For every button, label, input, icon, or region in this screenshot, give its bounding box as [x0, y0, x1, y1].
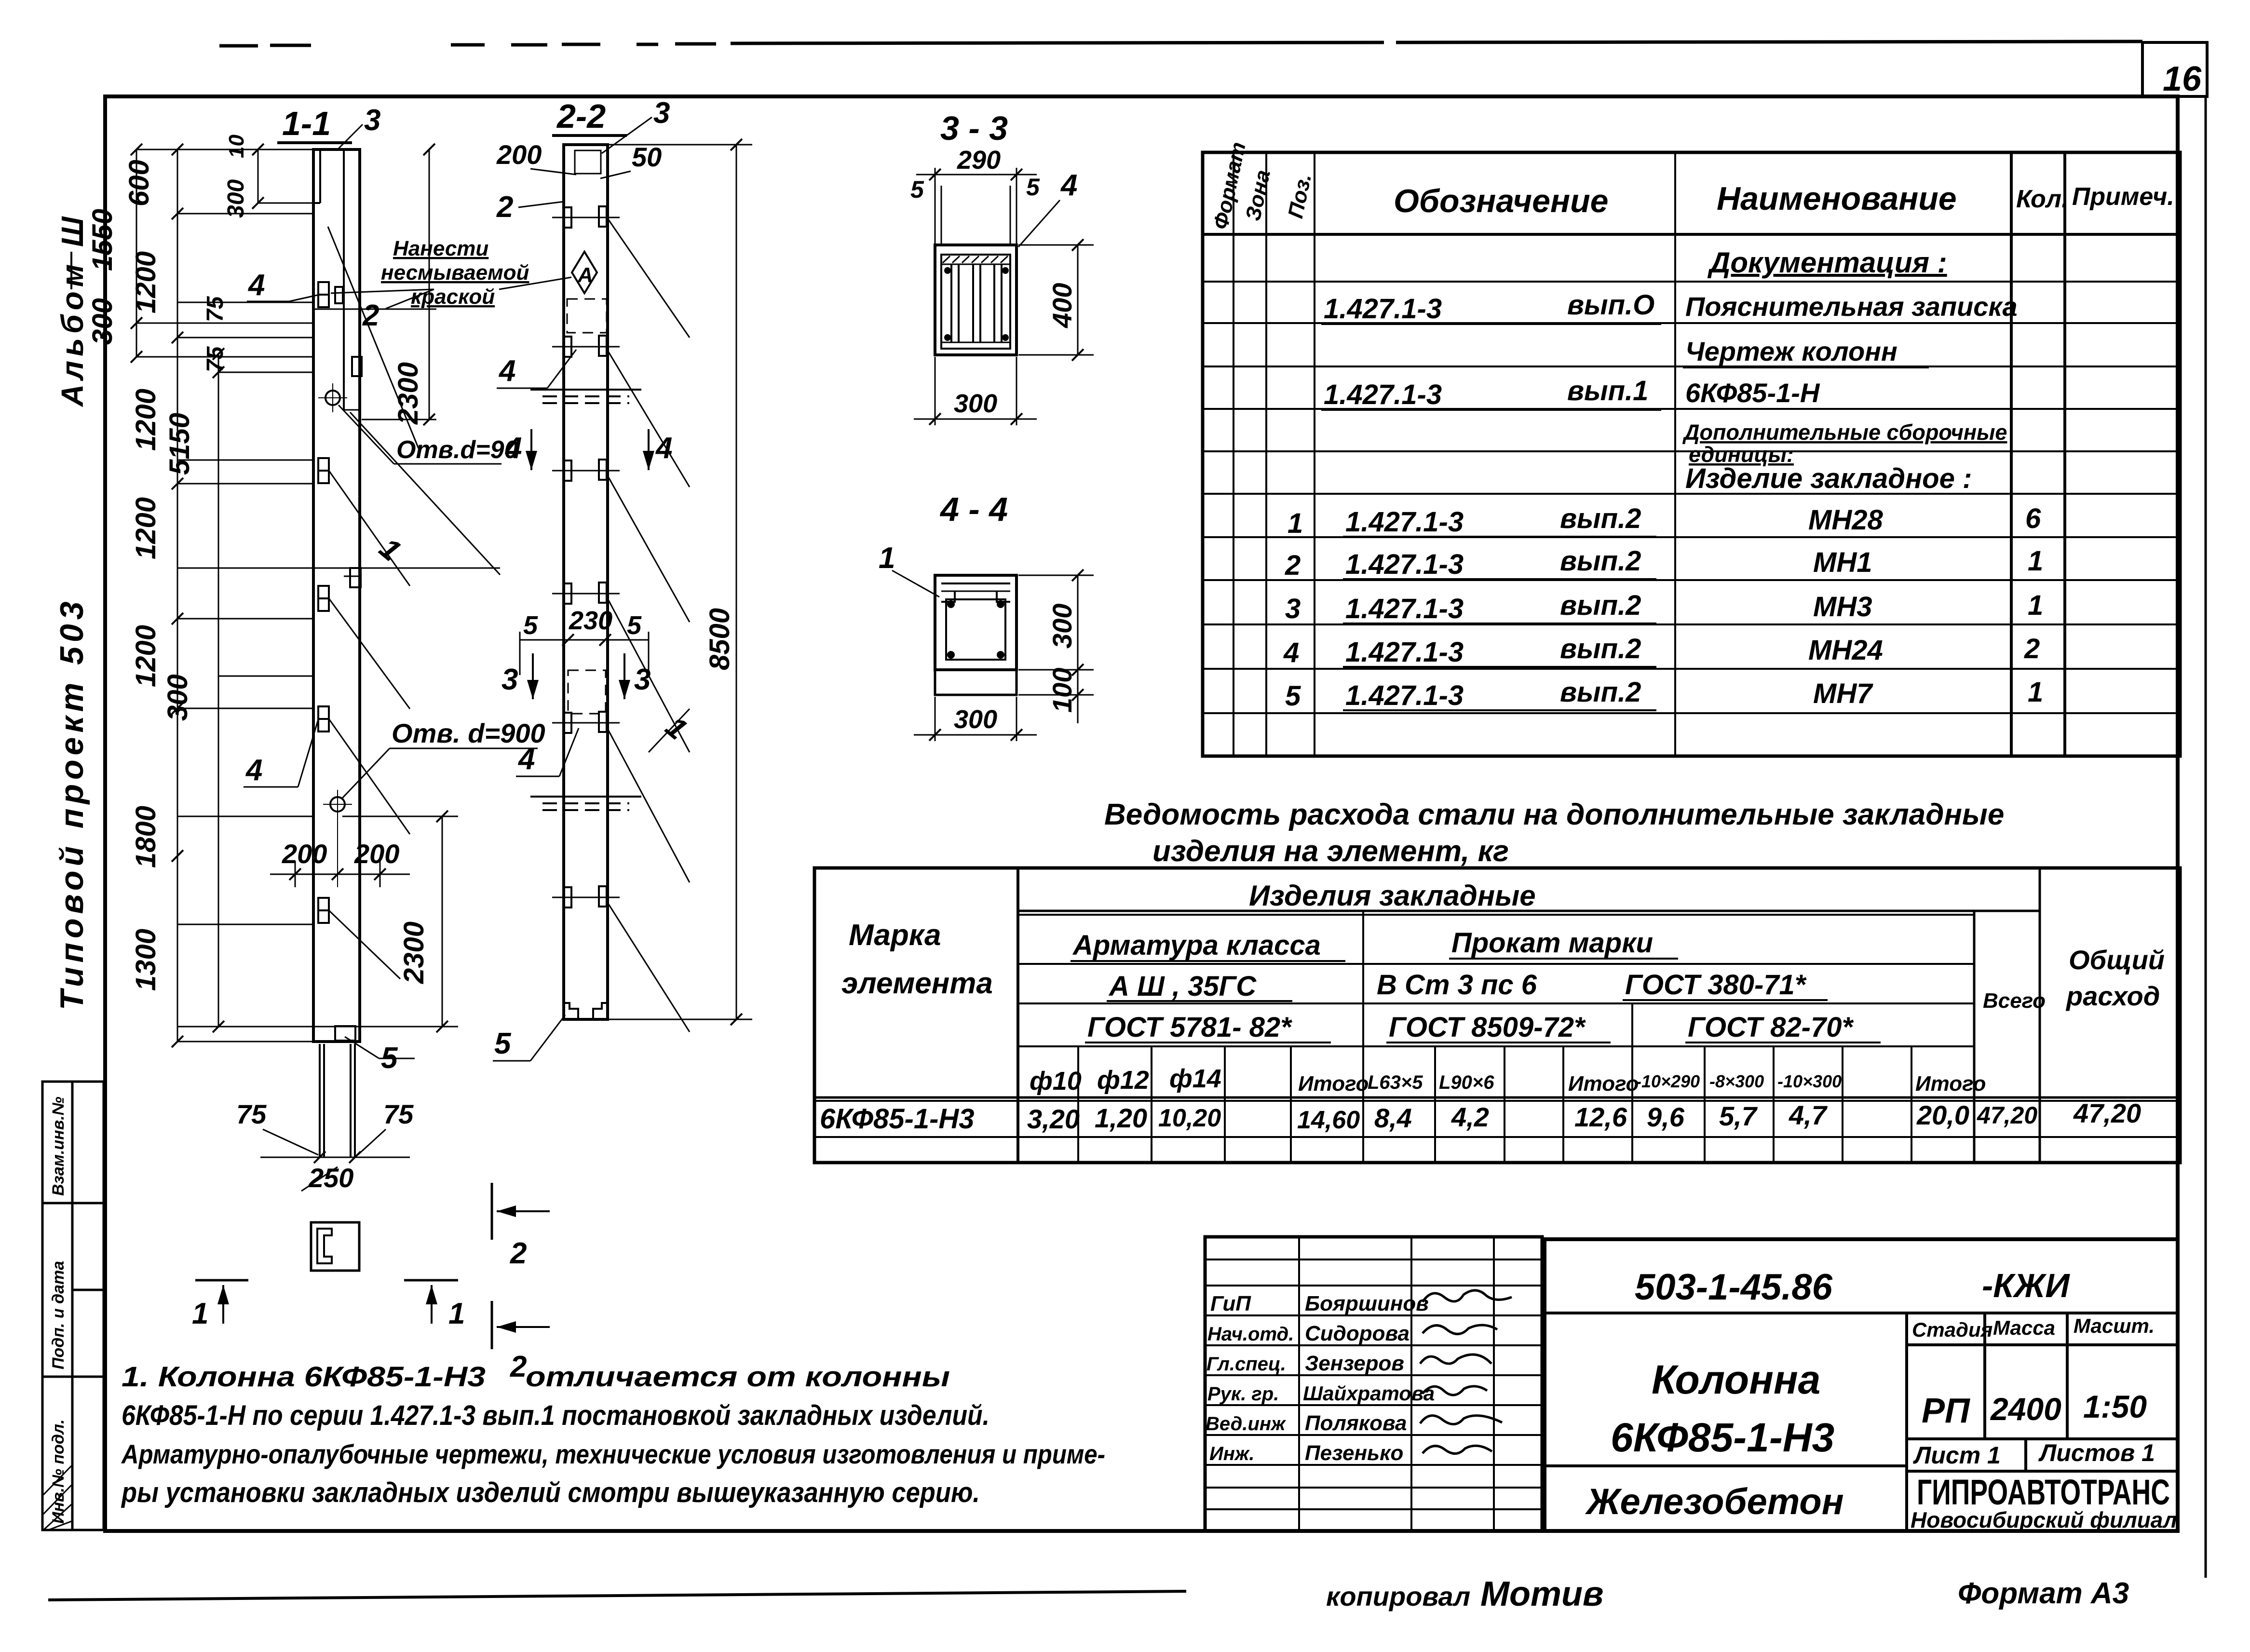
svg-text:1.427.1-3: 1.427.1-3 [1345, 506, 1464, 538]
svg-text:Инж.: Инж. [1209, 1443, 1255, 1464]
svg-text:6КФ85-1-Н3: 6КФ85-1-Н3 [1611, 1415, 1834, 1460]
svg-text:Рук. гр.: Рук. гр. [1207, 1383, 1279, 1405]
svg-text:1550: 1550 [87, 209, 118, 271]
node section mark 2 upper [491, 1183, 493, 1240]
svg-text:75: 75 [236, 1099, 267, 1129]
node plate leader diagonals v11 [329, 471, 410, 979]
svg-text:элемента: элемента [841, 967, 993, 1000]
svg-text:1.427.1-3: 1.427.1-3 [1345, 549, 1464, 580]
wire top page-edge dashes [219, 41, 2142, 46]
svg-text:ГИПРОАВТОТРАНС: ГИПРОАВТОТРАНС [1917, 1472, 2170, 1512]
svg-text:3: 3 [634, 663, 651, 696]
node hole d900 [330, 797, 345, 812]
svg-text:МН1: МН1 [1813, 547, 1872, 578]
svg-text:Арматура класса: Арматура класса [1072, 930, 1321, 961]
node steel table grid [814, 868, 2180, 1163]
svg-text:Нанести: Нанести [393, 237, 488, 260]
svg-text:3: 3 [653, 96, 670, 130]
svg-text:2: 2 [510, 1237, 527, 1270]
svg-text:Стадия: Стадия [1912, 1318, 1992, 1341]
svg-text:Альбом Ш: Альбом Ш [55, 212, 90, 407]
node hole d90 [325, 391, 340, 405]
svg-text:75: 75 [203, 296, 228, 322]
svg-text:МН3: МН3 [1813, 591, 1872, 623]
svg-text:4,7: 4,7 [1789, 1100, 1828, 1130]
svg-text:Взам.инв.№: Взам.инв.№ [49, 1097, 68, 1196]
svg-text:1.427.1-3: 1.427.1-3 [1324, 379, 1442, 410]
svg-text:МН7: МН7 [1813, 678, 1873, 709]
node dim 300 sec33 bottom [935, 357, 936, 425]
svg-text:Гл.спец.: Гл.спец. [1206, 1354, 1286, 1375]
svg-text:ГОСТ 380-71*: ГОСТ 380-71* [1625, 969, 1807, 1001]
svg-text:8,4: 8,4 [1374, 1103, 1412, 1133]
svg-text:Чертеж колонн: Чертеж колонн [1685, 336, 1898, 366]
svg-text:изделия на элемент, кг: изделия на элемент, кг [1152, 835, 1509, 868]
svg-text:вып.1: вып.1 [1567, 375, 1648, 406]
svg-text:расход: расход [2065, 981, 2160, 1011]
svg-text:5: 5 [910, 176, 924, 203]
node section mark 2 lower [491, 1301, 493, 1349]
svg-text:1200: 1200 [130, 497, 162, 559]
svg-text:отличается от колонны: отличается от колонны [526, 1361, 950, 1393]
node leader diagonals v22 [607, 217, 690, 1032]
svg-text:А: А [577, 263, 593, 287]
svg-text:Подп. и дата: Подп. и дата [49, 1261, 68, 1369]
node dim labels left chain [87, 135, 249, 991]
svg-text:Общий: Общий [2069, 945, 2165, 975]
svg-text:Итого: Итого [1568, 1072, 1639, 1096]
svg-text:4: 4 [245, 754, 262, 787]
svg-text:4,2: 4,2 [1451, 1102, 1489, 1132]
svg-text:8500: 8500 [704, 608, 735, 670]
node embedded plates view 1-1 [318, 282, 362, 923]
svg-text:1200: 1200 [130, 625, 162, 687]
svg-text:3: 3 [502, 663, 518, 696]
svg-text:1.427.1-3: 1.427.1-3 [1345, 636, 1464, 668]
node column 1-1 body [313, 149, 360, 1042]
svg-text:вып.2: вып.2 [1560, 633, 1641, 664]
svg-text:47,20: 47,20 [1977, 1102, 2037, 1129]
svg-text:Масса: Масса [1993, 1316, 2055, 1339]
node dim 2300 upper [429, 149, 430, 420]
svg-text:Сидорова: Сидорова [1305, 1322, 1410, 1345]
svg-text:Обозначение: Обозначение [1394, 183, 1608, 219]
svg-text:-10×290: -10×290 [1636, 1071, 1700, 1091]
svg-text:Нач.отд.: Нач.отд. [1207, 1324, 1294, 1345]
svg-text:Листов 1: Листов 1 [2038, 1439, 2155, 1466]
node section 4-4 body [935, 575, 1017, 695]
node dim chain C1 [136, 149, 500, 1042]
svg-text:1: 1 [2028, 545, 2043, 577]
svg-text:Полякова: Полякова [1305, 1411, 1407, 1435]
svg-text:290: 290 [957, 146, 1001, 175]
node section 3-3 hatch [943, 256, 1008, 263]
svg-text:Прокат марки: Прокат марки [1451, 927, 1653, 959]
node dim ticks view11 [131, 144, 264, 1047]
svg-text:300: 300 [223, 179, 249, 218]
node section 3-3 corner bars [944, 267, 1009, 341]
node section mark 1 right [404, 1279, 458, 1282]
svg-text:Кол.: Кол. [2016, 185, 2069, 213]
svg-text:Масшт.: Масшт. [2074, 1314, 2155, 1337]
svg-text:300: 300 [87, 298, 118, 345]
node plan view [311, 1222, 359, 1271]
node hidden loop lines upper [530, 390, 641, 403]
svg-text:9,6: 9,6 [1647, 1102, 1685, 1132]
svg-text:1200: 1200 [130, 251, 162, 313]
svg-text:4: 4 [655, 432, 672, 465]
svg-text:200: 200 [282, 839, 327, 869]
node specification table grid [1203, 152, 2180, 756]
svg-text:Лист 1: Лист 1 [1913, 1442, 2001, 1469]
svg-text:Арматурно-опалубочные чертежи,: Арматурно-опалубочные чертежи, техническ… [121, 1439, 1105, 1469]
svg-text:2: 2 [1285, 550, 1301, 581]
svg-text:5,7: 5,7 [1719, 1101, 1758, 1131]
svg-text:1: 1 [2028, 590, 2043, 621]
node dim 200 200 [270, 874, 410, 875]
svg-text:2: 2 [2024, 633, 2040, 664]
svg-text:75: 75 [383, 1099, 414, 1129]
svg-text:МН28: МН28 [1808, 504, 1883, 536]
svg-text:РП: РП [1922, 1392, 1971, 1430]
svg-text:Всего: Всего [1983, 989, 2046, 1013]
svg-text:L90×6: L90×6 [1439, 1072, 1494, 1093]
svg-text:ГиП: ГиП [1210, 1292, 1251, 1315]
svg-text:3: 3 [364, 104, 380, 137]
svg-text:5150: 5150 [164, 413, 195, 475]
svg-text:вып.2: вып.2 [1560, 590, 1641, 621]
svg-text:вып.2: вып.2 [1560, 503, 1641, 534]
svg-text:Изделие закладное :: Изделие закладное : [1685, 463, 1972, 494]
node section mark 1 left [195, 1279, 248, 1282]
node signature table grid [1205, 1237, 1542, 1531]
svg-text:-КЖИ: -КЖИ [1982, 1267, 2070, 1304]
svg-text:10,20: 10,20 [1158, 1104, 1221, 1132]
svg-text:вып.2: вып.2 [1560, 545, 1641, 577]
svg-text:Наименование: Наименование [1717, 180, 1957, 217]
svg-text:3,20: 3,20 [1027, 1104, 1080, 1134]
svg-text:3: 3 [1285, 593, 1301, 624]
svg-text:Мотив: Мотив [1480, 1575, 1603, 1613]
svg-text:230: 230 [569, 606, 612, 635]
svg-text:1300: 1300 [130, 929, 162, 991]
node page number box 16 [2142, 42, 2207, 96]
node stamp boxes [42, 1082, 104, 1530]
svg-text:1.427.1-3: 1.427.1-3 [1324, 293, 1442, 325]
svg-text:16: 16 [2163, 60, 2202, 98]
svg-text:47,20: 47,20 [2073, 1098, 2141, 1128]
svg-text:1: 1 [1288, 508, 1303, 539]
node label 1 diag [350, 412, 500, 575]
svg-text:А Ш , 35ГС: А Ш , 35ГС [1108, 971, 1257, 1002]
svg-text:503-1-45.86: 503-1-45.86 [1635, 1267, 1833, 1308]
svg-text:4: 4 [504, 432, 522, 465]
svg-text:Итого: Итого [1298, 1072, 1369, 1096]
svg-text:Вед.инж: Вед.инж [1206, 1413, 1287, 1435]
svg-text:Изделия закладные: Изделия закладные [1249, 880, 1536, 912]
node leader to kraska [328, 227, 419, 448]
svg-text:Отв.d=90: Отв.d=90 [396, 436, 518, 464]
svg-text:Новосибирский филиал: Новосибирский филиал [1911, 1507, 2177, 1532]
svg-text:Примеч.: Примеч. [2072, 183, 2174, 211]
svg-text:Колонна: Колонна [1652, 1357, 1820, 1402]
svg-text:2300: 2300 [398, 921, 430, 984]
svg-text:В Ст 3 пс 6: В Ст 3 пс 6 [1377, 969, 1537, 1001]
svg-text:МН24: МН24 [1808, 635, 1883, 666]
node diamond A marker [572, 252, 597, 293]
node hatch bottom stamp [43, 1466, 71, 1530]
svg-text:Инв.№ подл.: Инв.№ подл. [49, 1419, 68, 1524]
svg-text:ГОСТ 5781- 82*: ГОСТ 5781- 82* [1087, 1012, 1292, 1043]
svg-text:300: 300 [162, 674, 193, 721]
node plate center dashes v22 [552, 217, 620, 897]
svg-text:6КФ85-1-Н: 6КФ85-1-Н [1685, 378, 1820, 408]
svg-text:14,60: 14,60 [1297, 1106, 1360, 1134]
svg-text:Бояршинов: Бояршинов [1305, 1292, 1429, 1315]
svg-text:1,20: 1,20 [1095, 1103, 1147, 1133]
svg-text:-10×300: -10×300 [1777, 1071, 1842, 1091]
svg-text:300: 300 [1047, 604, 1077, 649]
node dim 300 sec44 bottom [935, 697, 936, 741]
svg-text:50: 50 [632, 142, 662, 172]
wire bottom copy line [48, 1591, 1186, 1600]
svg-text:250: 250 [308, 1163, 353, 1193]
svg-text:1.427.1-3: 1.427.1-3 [1345, 593, 1464, 624]
svg-text:Дополнительные сборочные: Дополнительные сборочные [1682, 420, 2007, 445]
svg-text:Документация :: Документация : [1707, 246, 1947, 279]
svg-text:5: 5 [627, 611, 642, 640]
svg-text:2: 2 [510, 1350, 527, 1383]
node column stub below [320, 1044, 355, 1157]
svg-text:200: 200 [354, 839, 399, 869]
node dim 400 sec33 [1077, 245, 1079, 355]
svg-text:вып.О: вып.О [1567, 289, 1654, 321]
svg-text:-8×300: -8×300 [1709, 1071, 1764, 1091]
svg-text:копировал: копировал [1326, 1581, 1470, 1611]
svg-text:10: 10 [225, 135, 248, 158]
svg-text:1: 1 [879, 542, 895, 575]
svg-text:вып.2: вып.2 [1560, 677, 1641, 708]
node title block main grid [1545, 1239, 2178, 1531]
node column 2-2 body [564, 145, 608, 1019]
svg-text:Итого: Итого [1915, 1072, 1986, 1096]
svg-text:ф14: ф14 [1169, 1064, 1221, 1093]
svg-text:5: 5 [494, 1027, 512, 1060]
wire drawing frame border [105, 96, 2178, 1531]
svg-text:100: 100 [1047, 668, 1077, 713]
svg-text:1: 1 [192, 1297, 208, 1330]
svg-text:4: 4 [247, 269, 265, 302]
svg-text:Железобетон: Железобетон [1585, 1481, 1844, 1522]
svg-text:Пояснительная записка: Пояснительная записка [1685, 291, 2018, 322]
svg-text:2-2: 2-2 [556, 97, 606, 135]
svg-text:Марка: Марка [849, 919, 941, 952]
svg-text:ры установки закладных изде: ры установки закладных изделий смотри вы… [121, 1477, 980, 1508]
svg-text:5: 5 [1026, 174, 1040, 201]
svg-text:Ведомость расхода стали на: Ведомость расхода стали на дополнительны… [1104, 798, 2004, 831]
svg-text:1800: 1800 [130, 806, 162, 868]
svg-text:2: 2 [496, 190, 513, 224]
svg-text:1.427.1-3: 1.427.1-3 [1345, 680, 1464, 711]
svg-text:600: 600 [123, 160, 155, 206]
node dim 300 100 sec44 [1077, 575, 1079, 723]
node dim 290 top [935, 168, 936, 245]
svg-text:Пезенько: Пезенько [1305, 1441, 1403, 1465]
svg-text:200: 200 [496, 139, 542, 170]
svg-text:L63×5: L63×5 [1368, 1072, 1423, 1093]
svg-text:1. Колонна 6КФ85-1-Н3: 1. Колонна 6КФ85-1-Н3 [122, 1361, 486, 1393]
svg-text:6КФ85-1-Н3: 6КФ85-1-Н3 [820, 1103, 975, 1135]
svg-text:Шайхратова: Шайхратова [1303, 1382, 1435, 1405]
svg-text:300: 300 [954, 705, 997, 734]
node dim 5 230 5 [520, 639, 649, 641]
svg-text:ф12: ф12 [1097, 1066, 1149, 1095]
svg-text:12,6: 12,6 [1574, 1102, 1627, 1132]
node dim 8500 [736, 145, 737, 1019]
svg-text:Формат А3: Формат А3 [1958, 1577, 2129, 1610]
svg-text:6: 6 [2025, 503, 2041, 534]
svg-text:400: 400 [1047, 283, 1077, 328]
node hidden loop lines lower [530, 797, 641, 810]
svg-text:краской: краской [411, 285, 495, 309]
svg-text:300: 300 [954, 389, 997, 418]
svg-text:1: 1 [448, 1297, 465, 1330]
svg-text:Зензеров: Зензеров [1305, 1352, 1404, 1375]
node section 4-4 corner bars [947, 600, 1004, 659]
svg-text:ГОСТ 8509-72*: ГОСТ 8509-72* [1389, 1012, 1586, 1043]
node plates v22 [564, 206, 607, 907]
svg-text:Типовой проект 503: Типовой проект 503 [54, 597, 90, 1010]
svg-text:2400: 2400 [1990, 1391, 2061, 1427]
wire page right edge line [2205, 96, 2207, 1578]
svg-text:ф10: ф10 [1030, 1067, 1082, 1096]
svg-text:3 - 3: 3 - 3 [940, 109, 1008, 147]
svg-text:1-1: 1-1 [282, 105, 331, 142]
svg-text:75: 75 [203, 346, 228, 372]
svg-text:4 - 4: 4 - 4 [939, 490, 1008, 528]
svg-text:ГОСТ 82-70*: ГОСТ 82-70* [1688, 1012, 1854, 1043]
svg-text:5: 5 [1285, 680, 1301, 712]
node signature squiggles [1420, 1290, 1512, 1454]
node section 3-3 body [935, 245, 1017, 355]
svg-text:4: 4 [498, 354, 515, 388]
svg-text:4: 4 [1283, 637, 1299, 668]
node dim 250 bottom [260, 1157, 410, 1158]
svg-text:4: 4 [517, 743, 535, 776]
svg-text:5: 5 [523, 611, 538, 640]
svg-text:1200: 1200 [130, 389, 162, 451]
svg-text:20,0: 20,0 [1916, 1100, 1969, 1130]
svg-text:несмываемой: несмываемой [381, 261, 529, 284]
svg-text:4: 4 [1060, 169, 1077, 202]
svg-text:1:50: 1:50 [2083, 1389, 2147, 1424]
svg-text:1: 1 [2028, 677, 2043, 708]
svg-text:2300: 2300 [393, 362, 424, 425]
svg-text:6КФ85-1-Н по серии 1.427.1-3: 6КФ85-1-Н по серии 1.427.1-3 вып.1 поста… [122, 1400, 989, 1431]
node dim 2300 lower [442, 816, 443, 1027]
